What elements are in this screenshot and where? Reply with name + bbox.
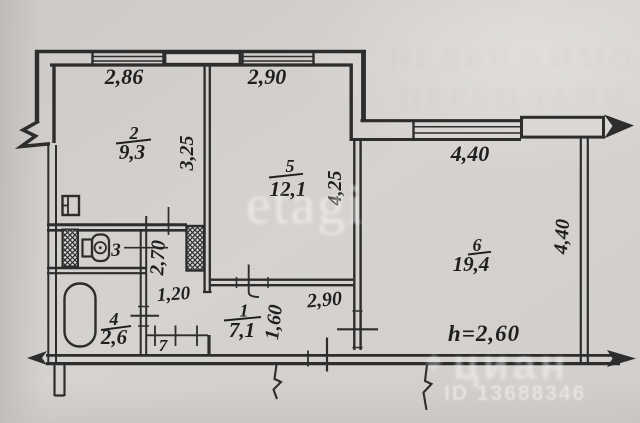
- toilet circle: [95, 242, 106, 253]
- svg-text:2,86: 2,86: [104, 64, 144, 89]
- bath door tick: [131, 315, 160, 317]
- room 6 door rungs: [353, 311, 363, 348]
- svg-text:5: 5: [286, 156, 295, 176]
- bar room 2: [116, 140, 151, 144]
- bathtub room 4: [65, 284, 96, 347]
- WC bottom wall: [47, 267, 147, 269]
- room 6 door tick: [337, 328, 378, 330]
- room 6 top wall outer line: [361, 119, 522, 122]
- corridor/room5 door rungs: [237, 277, 269, 288]
- svg-text:2,90: 2,90: [305, 288, 343, 313]
- svg-text:3: 3: [110, 240, 121, 261]
- vignette bottom edge: [0, 385, 640, 423]
- vignette left edge: [0, 0, 45, 423]
- corridor 1 top wall: [211, 280, 353, 286]
- toilet bowl room 3: [92, 235, 109, 262]
- left wall thin double (below break): [47, 143, 49, 363]
- svg-text:19,4: 19,4: [453, 252, 490, 276]
- vent shaft block (hall, crosshatched): [187, 226, 205, 271]
- watermark cian logo pin: [426, 354, 443, 371]
- bar room 1: [224, 317, 261, 321]
- electric panel in room 2: [63, 196, 80, 215]
- bar room 5: [269, 174, 303, 178]
- left exterior wall thick outer (top): [35, 50, 39, 123]
- step wall inner vertical: [350, 64, 353, 142]
- window W3 left cap: [412, 121, 414, 139]
- right exterior wall of room 6: [580, 136, 582, 363]
- window W2 2.90 mid lines: [242, 57, 313, 62]
- bottom wall right arrow: [607, 350, 636, 367]
- bath door rungs: [138, 307, 149, 327]
- svg-text:ПЕРЕПЛАНИ: ПЕРЕПЛАНИ: [398, 82, 630, 115]
- wall break symbol below room 6: [424, 365, 432, 411]
- svg-text:1,20: 1,20: [156, 283, 191, 306]
- window W1 2.86 mid lines: [92, 57, 164, 62]
- window W3 end block: [522, 117, 604, 137]
- corridor/room5 door tick with hook: [249, 265, 259, 298]
- WC / bath right wall (to hall): [140, 230, 142, 355]
- break arrow right of window W3: [604, 115, 634, 139]
- svg-text:7,1: 7,1: [229, 318, 255, 342]
- closet 7 front line: [147, 334, 209, 336]
- bar room 6: [468, 252, 491, 255]
- svg-text:1,60: 1,60: [261, 304, 287, 341]
- entrance door long tick: [326, 338, 328, 372]
- svg-text:НЕДВИЖИМО: НЕДВИЖИМО: [388, 42, 636, 75]
- wall top inner line room 2/5: [50, 63, 351, 66]
- vent shaft block WC left (crosshatched): [63, 230, 79, 267]
- left wall break zigzag: [21, 121, 50, 147]
- highlight top right: [300, 0, 640, 175]
- wall top outer line room 2/5: [35, 50, 366, 53]
- room 6 top wall inner line: [350, 138, 522, 141]
- svg-text:2,90: 2,90: [247, 64, 287, 89]
- wall break symbol below corridor: [274, 365, 282, 400]
- closet 7 ticks: [155, 326, 197, 347]
- window W1 end caps: [93, 52, 164, 65]
- room 2 bottom wall: [47, 223, 187, 226]
- window W3 4.40 mid lines: [413, 127, 521, 133]
- svg-text:ID 13688346: ID 13688346: [444, 382, 586, 405]
- svg-text:циан: циан: [453, 341, 569, 388]
- left exterior wall inner (top): [52, 64, 55, 143]
- svg-text:3,25: 3,25: [176, 136, 198, 172]
- left wall stub below bottom wall: [55, 364, 65, 396]
- svg-text:2,70: 2,70: [146, 240, 170, 277]
- svg-text:4,40: 4,40: [550, 218, 574, 255]
- leader line from label 3: [124, 247, 168, 249]
- closet 7 right stub wall: [207, 335, 210, 356]
- bottom wall left break arrow: [27, 351, 47, 365]
- bottom wall upper line: [46, 354, 620, 357]
- step wall outer vertical (room5 right top corner): [361, 50, 366, 122]
- dim line 2.70: [168, 207, 170, 235]
- entrance door rung on bottom wall: [307, 351, 309, 367]
- fraction bars: [101, 140, 491, 331]
- bottom wall lower line: [46, 362, 620, 365]
- wall between room 2 and room 5: [203, 66, 212, 292]
- window W2 end caps: [243, 52, 314, 65]
- bar room 4: [101, 326, 131, 330]
- toilet cistern: [83, 240, 93, 257]
- wall between rooms 5/1 and room 6: [354, 140, 360, 350]
- svg-text:4,40: 4,40: [450, 141, 490, 166]
- pier between windows: [165, 53, 240, 64]
- svg-text:etagi: etagi: [246, 174, 365, 236]
